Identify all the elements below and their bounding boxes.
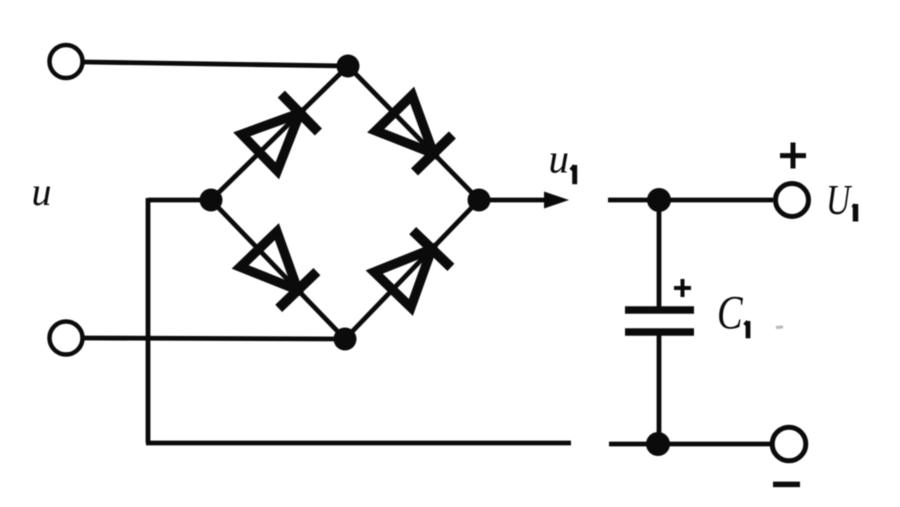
wire right node to arrow bbox=[479, 198, 550, 203]
label u1 subscript 1 bbox=[571, 165, 575, 184]
capacitor C1 plates bbox=[625, 310, 694, 332]
wire top node to right node bbox=[348, 66, 479, 200]
node capacitor top bbox=[647, 188, 671, 212]
diode D2 upper-right bbox=[376, 95, 453, 172]
diode D1 upper-left bbox=[242, 94, 319, 171]
svg-text:u: u bbox=[32, 169, 52, 214]
wire cap-top node to right terminal bbox=[659, 198, 773, 203]
terminal top-left input bbox=[50, 45, 83, 78]
wire bottom rail right segment bbox=[609, 442, 658, 447]
terminal bottom-left input bbox=[50, 322, 83, 355]
wire cap-top node down to capacitor bbox=[657, 198, 662, 307]
wire left node to left rail corner bbox=[148, 198, 211, 203]
node left bbox=[200, 189, 223, 212]
node right bbox=[468, 189, 491, 212]
wire cap-bottom node to bottom terminal bbox=[658, 442, 771, 447]
node top bbox=[337, 55, 360, 78]
svg-text:U: U bbox=[826, 178, 853, 224]
wire left rail vertical bbox=[146, 198, 151, 443]
terminal output minus bbox=[772, 427, 806, 461]
arrow u1 output bbox=[544, 192, 569, 209]
minus sign below bottom terminal bbox=[773, 482, 800, 488]
wire capacitor top segment left bbox=[608, 198, 659, 203]
svg-text:C: C bbox=[717, 287, 744, 340]
wire bottom rail left segment bbox=[146, 441, 571, 446]
label U1 subscript 1 bbox=[853, 204, 856, 222]
wire bottom-left terminal to bottom node bbox=[84, 338, 345, 339]
wire capacitor bottom lead bbox=[657, 335, 662, 445]
wire top-left terminal to top node bbox=[84, 62, 348, 66]
terminal output plus bbox=[776, 184, 809, 217]
wire left node to bottom node bbox=[211, 200, 345, 339]
plus sign at capacitor bbox=[674, 279, 691, 297]
node capacitor bottom bbox=[646, 432, 670, 456]
plus sign at output terminal bbox=[780, 143, 806, 169]
faint scan artifact dash bbox=[776, 326, 783, 330]
node bottom bbox=[334, 328, 357, 351]
svg-text:u: u bbox=[549, 136, 570, 182]
wire bottom node to right node bbox=[345, 200, 479, 339]
label C1 subscript 1 bbox=[745, 321, 748, 338]
wire left node to top node bbox=[211, 66, 348, 200]
diode D4 lower-right bbox=[374, 231, 451, 308]
diode D3 lower-left bbox=[240, 232, 317, 309]
